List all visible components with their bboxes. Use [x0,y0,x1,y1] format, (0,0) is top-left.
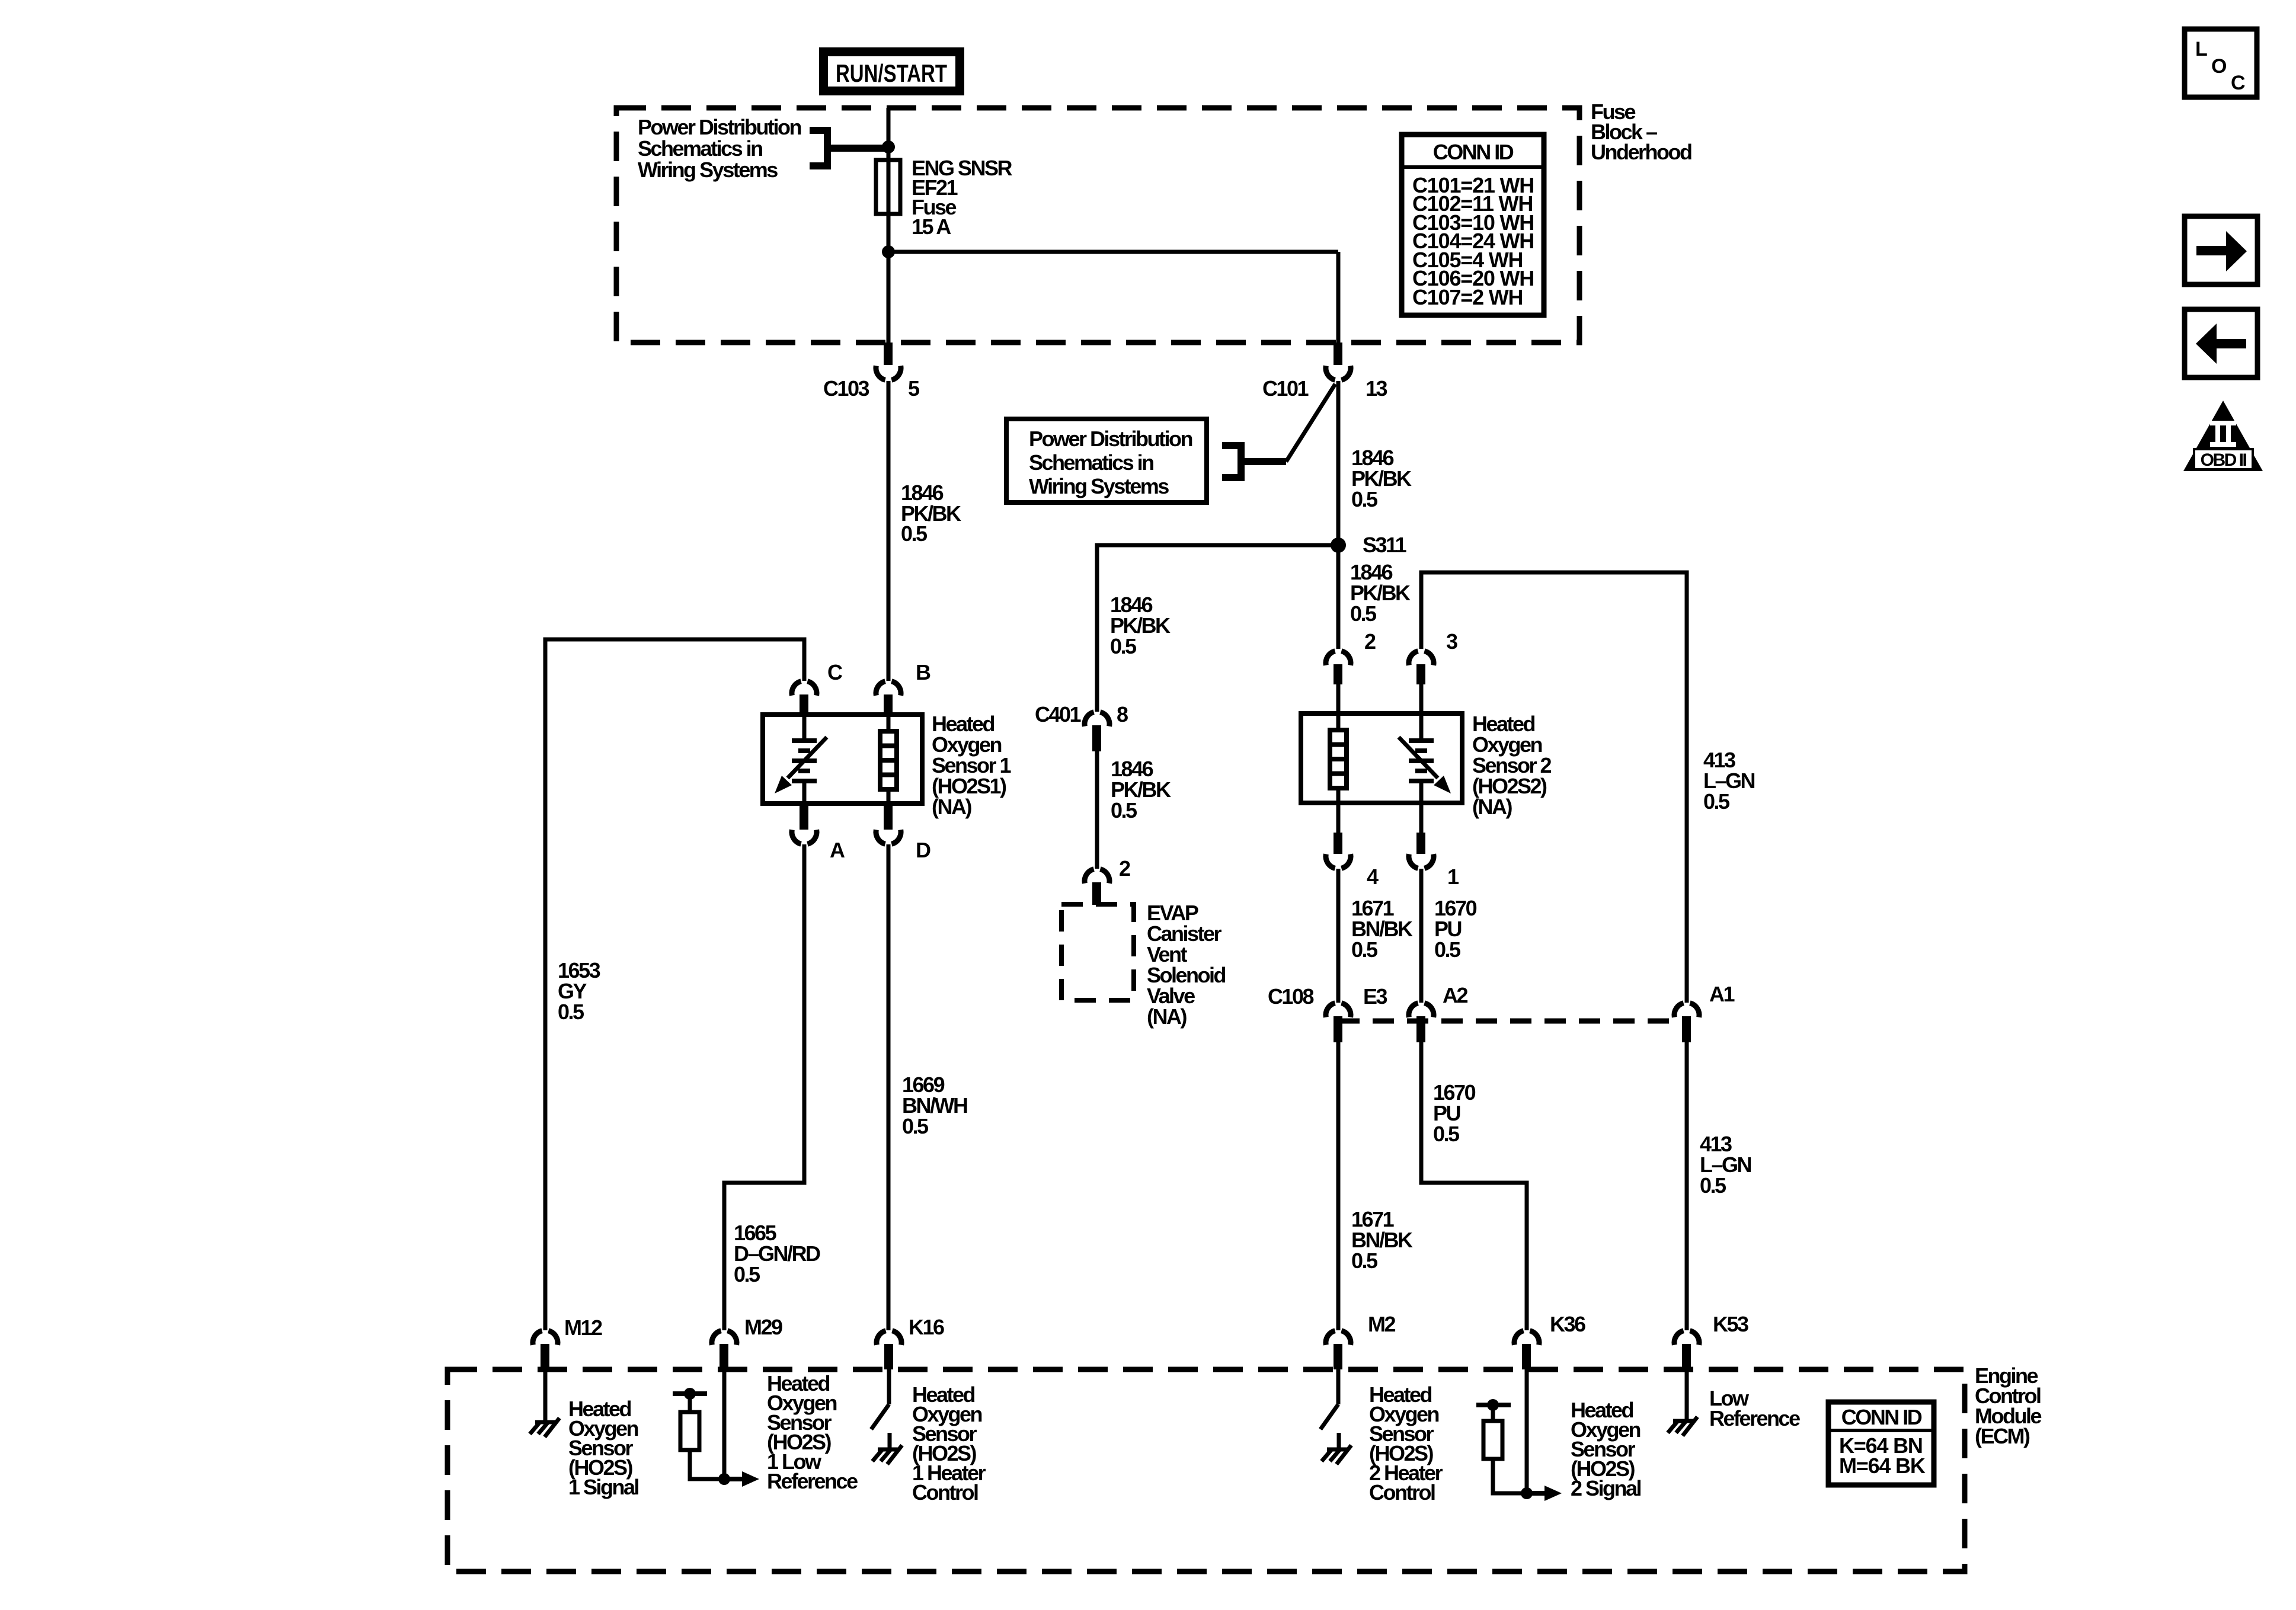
label Heated Oxygen Sensor (HO2S) 1 Low Reference [767,1371,858,1493]
CONN ID table (fuse block) [1402,135,1544,315]
svg-text:0.5: 0.5 [1351,1249,1378,1273]
svg-text:A1: A1 [1709,982,1735,1006]
label Low Reference [1709,1386,1800,1430]
svg-text:C: C [2231,72,2245,94]
wire 1670 PU A2 to K36 [1421,1042,1527,1330]
connector ECM pin K36 [1514,1312,1585,1369]
svg-text:M=64 BK: M=64 BK [1839,1454,1926,1478]
wire 1669 BN/WH from pin D to K16 [887,844,891,1330]
connector HO2S1 pin A [792,804,845,862]
svg-text:Underhood: Underhood [1591,140,1691,164]
svg-text:M2: M2 [1368,1312,1395,1336]
connector ECM pin K16 [877,1315,944,1369]
label EVAP Canister Vent Solenoid Valve (NA) [1147,901,1226,1029]
junction node below fuse [882,245,895,258]
label 1846 PK/BK 0.5 (C101 segment) [1351,446,1412,511]
label Heated Oxygen Sensor 1 (HO2S1) (NA) [932,712,1012,819]
svg-text:Power Distribution: Power Distribution [1029,427,1192,451]
EVAP canister vent solenoid valve dashed box [1061,904,1134,1000]
wire 1670 PU pin 1 to A2 [1419,869,1424,1003]
svg-text:C107=2 WH: C107=2 WH [1412,285,1523,309]
svg-text:0.5: 0.5 [902,1114,929,1138]
svg-text:(ECM): (ECM) [1975,1424,2030,1448]
wire 1846 PK/BK below C103 [887,381,891,681]
connector ECM pin M2 [1326,1312,1396,1369]
label Heated Oxygen Sensor (HO2S) 1 Signal [568,1397,639,1499]
junction node at bracket tap [882,140,895,153]
wire S311 to HO2S2 pin 2 [1336,545,1341,649]
connector C401 pin 8 [1035,702,1128,751]
signal network at K36 [1476,1369,1562,1501]
connector C103 pin 5 [823,343,920,401]
label 1846 PK/BK 0.5 (C401 to EVAP) [1111,757,1171,822]
svg-text:D: D [916,838,930,862]
HO2S2 sensor element (variable battery) [1399,713,1451,803]
svg-text:K36: K36 [1550,1312,1585,1336]
svg-text:0.5: 0.5 [1433,1122,1460,1146]
label Heated Oxygen Sensor (HO2S) 2 Signal [1571,1398,1641,1500]
svg-text:Schematics in: Schematics in [1029,450,1153,475]
label 1671 BN/BK 0.5 (lower) [1351,1207,1413,1273]
ground HO2S 1 signal (M12) [530,1369,559,1437]
label 1665 D-GN/RD 0.5 [734,1221,820,1286]
svg-text:L: L [2195,38,2207,60]
svg-text:CONN ID: CONN ID [1841,1405,1922,1429]
wire jog from HO2S1 pin C to left column [545,639,804,1330]
svg-text:2: 2 [1364,629,1376,654]
HO2S1 heater element [880,715,897,804]
label 1669 BN/WH 0.5 [902,1073,967,1138]
fuse EF21 ENG SNSR 15A [876,160,900,214]
connector HO2S2 pin 3 [1409,629,1457,713]
svg-text:0.5: 0.5 [1110,634,1137,658]
connector HO2S1 pin C [792,660,843,715]
svg-text:K53: K53 [1713,1312,1748,1336]
connector HO2S2 pin 4 [1326,803,1379,889]
connector ECM pin M12 [533,1315,602,1369]
svg-text:A: A [830,838,845,862]
svg-text:M12: M12 [564,1315,602,1340]
connector C108 pin A1 [1674,982,1735,1042]
svg-text:1 Signal: 1 Signal [568,1475,639,1499]
ECM dashed box [447,1369,1965,1571]
wire 1671 BN/BK E3 to M2 [1336,1042,1341,1330]
svg-text:CONN ID: CONN ID [1433,140,1514,164]
label Engine Control Module (ECM) [1975,1363,2041,1448]
svg-text:(NA): (NA) [932,795,971,819]
label 1670 PU 0.5 (lower) [1433,1080,1476,1146]
label 413 L-GN 0.5 (upper) [1703,748,1755,814]
connector HO2S2 pin 2 [1326,629,1376,713]
svg-text:O: O [2211,55,2227,78]
label Heated Oxygen Sensor (HO2S) 1 Heater Control [912,1382,986,1505]
label 1846 PK/BK 0.5 (below S311) [1350,560,1411,626]
wire 1665 D-GN/RD from pin A to M29 [724,844,804,1330]
svg-text:4: 4 [1367,865,1379,889]
wire down to C101 pin 13 [1336,252,1341,343]
LOC icon box [2185,29,2257,97]
back arrow icon [2185,309,2257,377]
connector C108 dashed link [1338,1019,1687,1024]
splice S311 [1331,537,1346,553]
ground low reference (K53) [1668,1369,1697,1436]
svg-text:Wiring Systems: Wiring Systems [1029,474,1169,498]
svg-text:Reference: Reference [1709,1406,1800,1430]
svg-text:C401: C401 [1035,702,1082,726]
svg-text:RUN/START: RUN/START [836,59,947,87]
label Fuse Block - Underhood [1591,100,1691,164]
svg-text:0.5: 0.5 [901,521,928,546]
label Heated Oxygen Sensor (HO2S) 2 Heater Control [1369,1382,1443,1505]
low reference network at M29 [673,1369,759,1487]
OBD II icon [2183,401,2263,471]
svg-text:Schematics in: Schematics in [638,136,762,161]
svg-text:Control: Control [1369,1480,1435,1505]
svg-text:0.5: 0.5 [1703,789,1730,814]
svg-text:0.5: 0.5 [1434,937,1461,962]
pointer bracket to note (middle) [1222,442,1286,481]
svg-text:M29: M29 [744,1315,782,1339]
wire 1846 PK/BK below C101 to S311 [1336,381,1341,649]
connector C108 pin E3 [1326,984,1387,1042]
wire 413 branch from pin 3 up and right [1421,572,1687,1003]
HO2S2 component box [1301,713,1462,803]
label 1846 PK/BK 0.5 (S311 to C401) [1110,593,1171,658]
pointer diagonal to C101 [1286,384,1335,462]
svg-text:5: 5 [908,376,920,401]
svg-text:K16: K16 [909,1315,944,1339]
svg-text:0.5: 0.5 [1111,798,1137,822]
connector HO2S2 pin 1 [1409,803,1459,889]
label Heated Oxygen Sensor 2 (HO2S2) (NA) [1472,712,1552,819]
svg-text:OBD II: OBD II [2201,450,2247,470]
HO2S1 sensor element (variable battery) [775,715,827,804]
svg-text:Wiring Systems: Wiring Systems [638,158,778,182]
svg-text:0.5: 0.5 [558,1000,584,1024]
svg-text:A2: A2 [1443,983,1467,1007]
svg-text:2: 2 [1119,856,1130,881]
svg-text:Power Distribution: Power Distribution [638,115,801,139]
RUN/START power feed box [819,47,964,95]
connector ECM pin M29 [712,1315,782,1369]
label 1653 GY 0.5 [558,958,600,1024]
svg-text:C101: C101 [1262,376,1309,401]
svg-text:0.5: 0.5 [1700,1173,1726,1198]
heater control switch at K16 [871,1369,902,1464]
svg-text:8: 8 [1117,702,1128,726]
svg-text:0.5: 0.5 [734,1262,760,1286]
label 1670 PU 0.5 (upper) [1434,896,1477,962]
svg-text:3: 3 [1446,629,1457,654]
svg-text:0.5: 0.5 [1351,487,1378,511]
svg-text:13: 13 [1366,376,1387,401]
svg-text:Reference: Reference [767,1469,858,1493]
svg-text:S311: S311 [1363,533,1407,557]
svg-text:C: C [827,660,843,684]
wire 413 L-GN A1 to K53 [1685,1042,1689,1330]
label 413 L-GN 0.5 (lower) [1700,1132,1751,1198]
svg-text:1: 1 [1447,865,1459,889]
label 1671 BN/BK 0.5 (upper) [1351,896,1413,962]
wire 1846 PK/BK to EVAP [1095,751,1099,869]
wire S311 branch to C401 [1097,545,1338,712]
label ENG SNSR EF21 Fuse 15 A [912,156,1013,239]
svg-text:(NA): (NA) [1472,795,1512,819]
connector HO2S1 pin D [876,804,930,862]
connector ECM pin K53 [1674,1312,1748,1369]
svg-text:C108: C108 [1268,984,1314,1009]
svg-text:E3: E3 [1363,984,1387,1009]
fuse block underhood dashed box [616,108,1579,343]
connector EVAP pin 2 [1085,856,1130,905]
svg-text:0.5: 0.5 [1350,601,1377,626]
label 1846 PK/BK 0.5 (C103 segment) [901,481,961,546]
forward arrow icon [2185,216,2257,284]
svg-text:15 A: 15 A [912,215,951,239]
wire fuse output to C101 branch [888,250,1338,254]
connector C101 pin 13 [1262,343,1387,401]
svg-text:(NA): (NA) [1147,1004,1187,1029]
connector C108 pin A2 [1409,983,1468,1042]
connector HO2S1 pin B [876,660,930,715]
svg-text:B: B [916,660,930,684]
note box Power Distribution Schematics in Wiring Systems (middle) [1006,419,1207,502]
svg-text:2 Signal: 2 Signal [1571,1476,1641,1500]
wire RUN/START to fuse EF21 [887,108,891,343]
heater control switch at M2 [1320,1369,1351,1464]
wire 1671 BN/BK pin 4 to E3 [1336,869,1341,1003]
HO2S1 component box [763,715,922,804]
CONN ID table (ECM) [1828,1402,1934,1485]
HO2S2 heater element [1330,713,1347,803]
pointer bracket to note (top) [810,127,889,169]
svg-text:C103: C103 [823,376,869,401]
svg-text:Control: Control [912,1480,978,1505]
svg-text:0.5: 0.5 [1351,937,1378,962]
note Power Distribution Schematics in Wiring Systems (top) [638,115,801,182]
